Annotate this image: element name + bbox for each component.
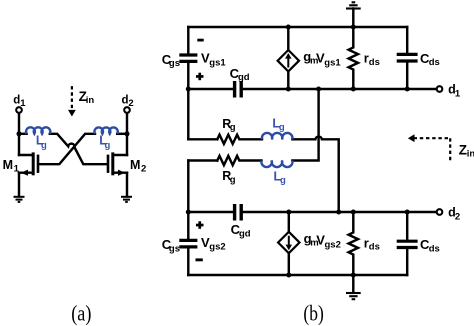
svg-text:gs: gs [169, 58, 180, 69]
svg-text:gs1: gs1 [324, 58, 341, 69]
svg-text:M: M [130, 158, 140, 172]
svg-text:gs2: gs2 [325, 240, 341, 251]
svg-text:gd: gd [238, 72, 250, 83]
svg-text:in: in [467, 149, 474, 160]
svg-text:(a): (a) [71, 301, 91, 326]
svg-text:1: 1 [20, 98, 26, 109]
svg-text:M: M [3, 158, 13, 172]
svg-text:2: 2 [455, 212, 460, 223]
svg-text:2: 2 [128, 98, 133, 109]
svg-text:g: g [41, 140, 47, 151]
svg-text:in: in [86, 95, 95, 106]
svg-text:g: g [280, 175, 286, 186]
svg-text:gs1: gs1 [209, 57, 226, 68]
svg-text:(b): (b) [303, 301, 323, 326]
svg-text:g: g [279, 122, 285, 133]
svg-text:gd: gd [239, 228, 251, 239]
svg-text:ds: ds [429, 57, 440, 68]
svg-text:1: 1 [14, 163, 20, 174]
svg-text:g: g [105, 140, 111, 151]
svg-text:ds: ds [369, 242, 380, 253]
svg-text:ds: ds [429, 243, 440, 254]
svg-text:ds: ds [369, 57, 380, 68]
svg-text:g: g [230, 175, 236, 186]
svg-text:gs: gs [169, 244, 180, 255]
svg-text:1: 1 [455, 89, 461, 100]
svg-text:g: g [230, 122, 236, 133]
svg-text:gs2: gs2 [209, 242, 225, 253]
svg-text:2: 2 [141, 163, 146, 174]
